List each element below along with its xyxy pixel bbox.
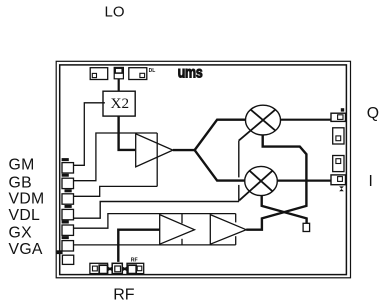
svg-text:LO: LO xyxy=(105,3,125,20)
svg-text:ums: ums xyxy=(178,64,203,82)
svg-text:X2: X2 xyxy=(111,95,130,112)
svg-text:RF: RF xyxy=(131,257,138,263)
svg-text:GB: GB xyxy=(9,175,32,192)
svg-text:GM: GM xyxy=(9,157,35,174)
svg-text:VDM: VDM xyxy=(9,191,45,208)
svg-text:DL: DL xyxy=(149,68,156,74)
svg-text:RF: RF xyxy=(113,287,135,304)
svg-text:Q: Q xyxy=(367,105,379,122)
svg-text:I: I xyxy=(369,173,373,190)
svg-text:VGA: VGA xyxy=(9,241,43,258)
svg-text:VDL: VDL xyxy=(9,207,41,224)
svg-text:GX: GX xyxy=(9,225,33,242)
